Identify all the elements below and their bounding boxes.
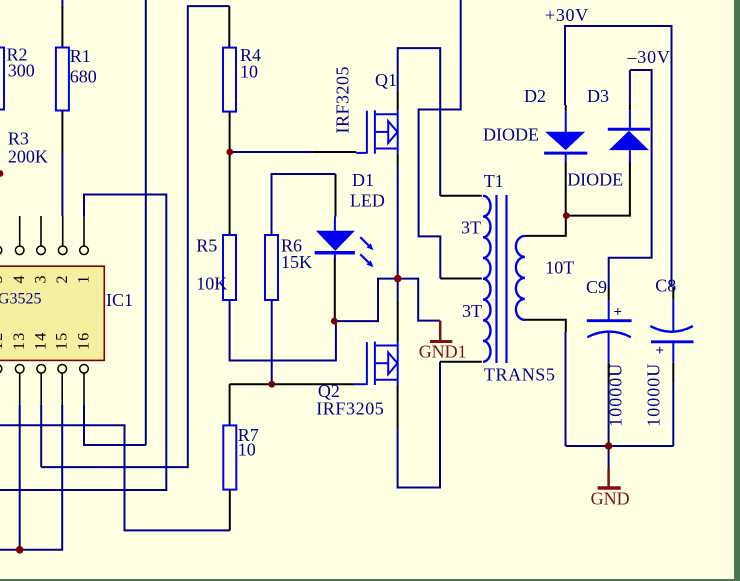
wire D2 top black — [565, 105, 567, 111]
resistor R5 — [223, 235, 236, 300]
svg-text:12: 12 — [0, 332, 6, 350]
wire pin1 up — [0, 195, 166, 491]
junction dot left edge R3 — [0, 170, 3, 177]
wire Q1 source black — [397, 154, 399, 165]
junction dot D2 secondary — [563, 212, 570, 219]
transformer T1 secondary winding — [516, 236, 525, 320]
wire gate Q1 navy — [230, 151, 313, 153]
wire R7 top black — [229, 384, 231, 425]
svg-text:SG3525: SG3525 — [0, 291, 41, 308]
junction dot R6 gate — [268, 381, 275, 388]
resistor R4 — [223, 48, 236, 112]
junction dot main — [394, 275, 402, 283]
wire Q2 source loop to T1 — [398, 362, 440, 488]
wire junction to GND1 — [398, 279, 441, 321]
resistor R2 — [0, 48, 4, 110]
svg-text:2: 2 — [54, 276, 71, 284]
wire Q1 drain black — [397, 91, 399, 110]
wire R1 bottom black — [61, 111, 63, 154]
resistor R6 — [265, 235, 278, 300]
wire pin16 down — [84, 405, 146, 445]
svg-text:GND: GND — [591, 489, 630, 509]
wire R4 to R5 black — [229, 112, 231, 235]
svg-text:T1: T1 — [484, 171, 504, 191]
svg-text:IC1: IC1 — [106, 290, 133, 310]
svg-text:IRF3205: IRF3205 — [316, 399, 384, 419]
wire T1 primary mid terminal — [440, 278, 482, 280]
wire node to main junction — [334, 279, 397, 322]
svg-text:15K: 15K — [281, 252, 312, 272]
wire T1 primary bottom terminal — [440, 361, 482, 363]
wire net top x461 — [419, 0, 461, 279]
wire T1 primary top terminal — [440, 195, 482, 197]
svg-text:Q1: Q1 — [375, 70, 397, 90]
sheet border bottom — [0, 579, 740, 581]
svg-text:3T: 3T — [462, 301, 482, 321]
wire GND rail horizontal — [566, 445, 674, 447]
svg-text:5: 5 — [0, 276, 6, 284]
svg-text:15: 15 — [54, 332, 71, 350]
wire T1 secondary top terminal — [525, 216, 566, 236]
wire C8 stem top black — [672, 287, 674, 300]
IC pin circles bottom — [0, 365, 88, 374]
svg-text:+: + — [656, 343, 665, 359]
svg-text:–30V: –30V — [627, 47, 671, 67]
wire D3 top navy — [629, 70, 631, 105]
svg-text:4: 4 — [11, 276, 28, 284]
wire R6 bottom navy — [271, 300, 273, 384]
wire C9 bottom navy — [608, 382, 610, 446]
wire R7 bottom black — [229, 490, 231, 531]
junction dot GND — [605, 442, 613, 450]
svg-text:GND1: GND1 — [419, 342, 467, 362]
wire GND stub navy — [608, 446, 610, 469]
IC pin stubs bottom — [0, 373, 84, 405]
ground GND symbol — [607, 469, 610, 487]
wire C9 bottom black — [608, 363, 610, 383]
wire D2 bottom black — [565, 162, 567, 216]
wire secondary bottom to GND rail — [565, 332, 567, 446]
wire -30V rail — [609, 70, 652, 287]
diode D2 — [544, 111, 587, 162]
svg-text:10000U: 10000U — [644, 363, 664, 427]
transistor Q2 (IRF3205 N-MOSFET) — [355, 342, 398, 385]
wire pin13 pin15 bottom — [0, 405, 62, 550]
svg-text:D1: D1 — [352, 170, 374, 190]
wire R1 top black — [61, 5, 63, 47]
svg-text:DIODE: DIODE — [483, 125, 539, 145]
wire D3 bottom black — [566, 162, 630, 216]
svg-text:13: 13 — [11, 332, 28, 350]
svg-text:3T: 3T — [461, 218, 481, 238]
junction dot R4-R5 — [226, 149, 233, 156]
wire pin13 down — [19, 405, 21, 550]
resistor R7 — [223, 425, 236, 489]
wire R5 bottom node — [230, 300, 336, 361]
svg-text:+: + — [614, 305, 623, 321]
svg-text:10T: 10T — [545, 258, 574, 278]
IC U1 SG3525 body — [0, 266, 104, 360]
wire R7 gate horizontal black — [230, 383, 355, 385]
svg-text:10K: 10K — [196, 274, 227, 294]
svg-text:300: 300 — [8, 61, 35, 81]
wire net R1 top — [61, 0, 63, 5]
wire LED top black — [335, 174, 337, 217]
wire C9 stem top black — [608, 287, 610, 300]
svg-text:+30V: +30V — [545, 5, 589, 25]
svg-text:IRF3205: IRF3205 — [333, 66, 353, 134]
wire R4 top black — [228, 6, 230, 48]
svg-text:LED: LED — [350, 191, 385, 211]
svg-text:10000U: 10000U — [606, 363, 626, 427]
wire rail x146 — [145, 0, 147, 445]
wire pin14 down — [40, 405, 42, 467]
transistor Q1 (IRF3205 N-MOSFET) — [356, 110, 398, 153]
svg-text:C8: C8 — [655, 276, 676, 296]
svg-text:R1: R1 — [70, 46, 91, 66]
svg-text:10: 10 — [240, 61, 258, 81]
capacitor C8 — [650, 300, 693, 363]
svg-text:R3: R3 — [8, 129, 29, 149]
capacitor C9 — [587, 300, 632, 363]
svg-text:3: 3 — [33, 276, 50, 284]
svg-text:680: 680 — [70, 67, 97, 87]
sheet border right — [734, 0, 740, 581]
wire C8 bottom navy — [672, 382, 674, 446]
LED D1 — [315, 217, 374, 268]
svg-text:DIODE: DIODE — [567, 170, 623, 190]
svg-text:200K: 200K — [8, 147, 48, 167]
svg-text:10: 10 — [238, 440, 256, 460]
svg-text:16: 16 — [76, 332, 93, 350]
svg-text:D2: D2 — [524, 86, 546, 106]
wire R1 to pin2 navy — [61, 154, 63, 216]
wire LED bottom black — [334, 258, 336, 321]
transformer T1 core — [495, 195, 497, 363]
wire D3 top black — [629, 105, 631, 110]
junction dot LED node — [331, 318, 338, 325]
resistor R1 — [56, 48, 69, 111]
svg-text:14: 14 — [33, 332, 50, 350]
IC pin circles top — [0, 246, 88, 255]
svg-text:C9: C9 — [586, 277, 607, 297]
wire R7 bottom loop — [0, 425, 230, 530]
svg-text:1: 1 — [76, 276, 93, 284]
wire T1 secondary bottom terminal — [525, 320, 566, 332]
wire +30V rail — [565, 26, 672, 287]
diode D3 — [608, 110, 650, 162]
IC pin stubs top — [0, 216, 84, 246]
wire Q1 source navy — [397, 165, 399, 300]
ground GND1 symbol — [439, 321, 442, 341]
wire Q2 source black — [397, 385, 399, 427]
wire R6 top loop — [272, 174, 336, 235]
junction dot bottom left — [16, 546, 24, 554]
svg-text:TRANS5: TRANS5 — [484, 365, 556, 385]
wire C8 bottom black — [672, 363, 674, 383]
wire gate Q1 black — [313, 151, 356, 153]
svg-text:D3: D3 — [587, 86, 609, 106]
wire Q2 drain black — [397, 300, 399, 341]
wire rail x188 R4 loop — [41, 6, 229, 467]
transformer T1 primary winding — [483, 196, 491, 362]
svg-text:R5: R5 — [196, 236, 217, 256]
wire Q1 drain top — [398, 48, 441, 196]
